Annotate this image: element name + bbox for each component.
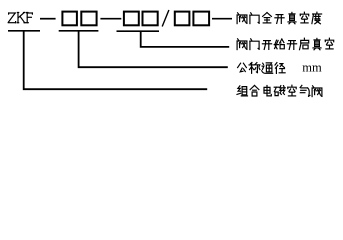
wire dash to first label (212, 18, 232, 20)
label 1: valve full-open vacuum degree (237, 12, 322, 24)
text ZKF model prefix (8, 13, 32, 23)
underline under pair B (117, 30, 160, 32)
label 4: combined electromagnetic air valve (237, 85, 322, 96)
slash separator (162, 10, 169, 27)
label 2: valve opening-start vacuum (237, 38, 334, 50)
wire from pair B down to opening-vacuum label (141, 31, 230, 47)
wire dash after ZKF (40, 18, 56, 20)
wire from ZKF down to bottom label (24, 31, 208, 89)
box pair A (nominal diameter digits) (62, 12, 77, 26)
label 3: nominal diameter (238, 63, 286, 74)
box pair B (opening vacuum digits) (124, 12, 139, 26)
wire from pair A down to diameter label (79, 31, 228, 67)
underline under ZKF (8, 30, 40, 32)
underline under pair A (59, 30, 99, 32)
wire dash between pairs (100, 18, 121, 20)
svg-text:mm: mm (302, 61, 322, 75)
box pair C (full-open vacuum digits) (175, 12, 190, 26)
